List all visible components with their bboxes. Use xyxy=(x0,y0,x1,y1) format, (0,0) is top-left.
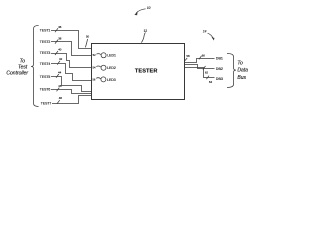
LED2 xyxy=(101,65,106,70)
wire TEST1 xyxy=(51,31,92,49)
slash TEST4 xyxy=(57,61,60,65)
slash DB1 xyxy=(199,56,202,60)
svg-text:52: 52 xyxy=(93,53,96,57)
svg-text:62: 62 xyxy=(205,71,209,75)
slash TEST6 xyxy=(57,88,60,92)
svg-text:TEST4: TEST4 xyxy=(40,62,51,66)
svg-text:TESTER: TESTER xyxy=(135,68,158,74)
leader 50 to TEST1 wire xyxy=(85,39,87,47)
svg-text:DB2: DB2 xyxy=(216,67,223,71)
svg-text:TEST1: TEST1 xyxy=(40,28,51,32)
leader 56 xyxy=(96,78,101,79)
svg-text:Data: Data xyxy=(237,68,248,74)
svg-text:TEST7: TEST7 xyxy=(41,102,52,106)
leader 58 to box right edge xyxy=(185,58,187,61)
svg-text:LED2: LED2 xyxy=(107,66,116,70)
LED1 xyxy=(101,53,106,58)
svg-text:TEST6: TEST6 xyxy=(40,88,51,92)
svg-text:14: 14 xyxy=(203,30,207,34)
svg-text:LED3: LED3 xyxy=(107,78,116,82)
svg-text:50: 50 xyxy=(86,35,90,39)
svg-text:LED1: LED1 xyxy=(107,54,116,58)
wire TEST3 xyxy=(51,54,92,68)
svg-text:42: 42 xyxy=(59,57,63,61)
svg-text:44: 44 xyxy=(58,70,62,74)
svg-text:58: 58 xyxy=(186,54,190,58)
svg-text:TEST5: TEST5 xyxy=(40,75,51,79)
figure reference arrow 10 xyxy=(136,9,145,13)
wire TEST4 xyxy=(51,64,92,81)
svg-text:Test: Test xyxy=(18,64,28,70)
svg-text:38: 38 xyxy=(58,36,62,40)
slash TEST5 xyxy=(56,74,59,78)
svg-text:DB3: DB3 xyxy=(216,77,223,81)
svg-text:64: 64 xyxy=(209,80,213,84)
svg-text:54: 54 xyxy=(93,66,96,70)
wire TEST2 xyxy=(51,42,92,56)
figure reference arrow 14 xyxy=(208,33,213,38)
wire DB2 xyxy=(185,65,215,69)
slash TEST3 xyxy=(55,51,58,55)
slash DB2 xyxy=(203,66,206,70)
wire DB3 xyxy=(185,68,215,78)
svg-text:DB1: DB1 xyxy=(216,56,223,60)
right bracket xyxy=(227,54,236,88)
svg-text:10: 10 xyxy=(147,6,151,10)
slash TEST7 xyxy=(57,100,60,104)
svg-text:To: To xyxy=(237,61,243,67)
svg-text:12: 12 xyxy=(144,29,148,33)
svg-text:Bus: Bus xyxy=(237,75,246,81)
svg-text:TEST2: TEST2 xyxy=(40,40,51,44)
slash DB3 xyxy=(206,76,209,80)
svg-text:Controller: Controller xyxy=(6,70,28,76)
left bracket xyxy=(31,26,38,107)
svg-text:60: 60 xyxy=(202,54,206,58)
LED3 xyxy=(101,77,106,82)
slash TEST2 xyxy=(55,40,58,44)
wire DB1 xyxy=(185,59,215,63)
leader for box reference 12 xyxy=(141,33,145,43)
wire TEST7 xyxy=(52,96,92,104)
leader 54 xyxy=(96,66,101,67)
svg-text:56: 56 xyxy=(92,77,95,81)
svg-text:48: 48 xyxy=(59,96,63,100)
svg-text:36: 36 xyxy=(58,25,62,29)
leader 52 xyxy=(96,54,101,55)
slash TEST1 xyxy=(55,28,58,32)
svg-text:TEST3: TEST3 xyxy=(40,51,51,55)
svg-text:40: 40 xyxy=(58,48,62,52)
svg-text:46: 46 xyxy=(58,84,62,88)
wire TEST6 xyxy=(51,90,92,94)
tester box U1 xyxy=(92,44,185,100)
wire TEST5 xyxy=(51,77,92,92)
